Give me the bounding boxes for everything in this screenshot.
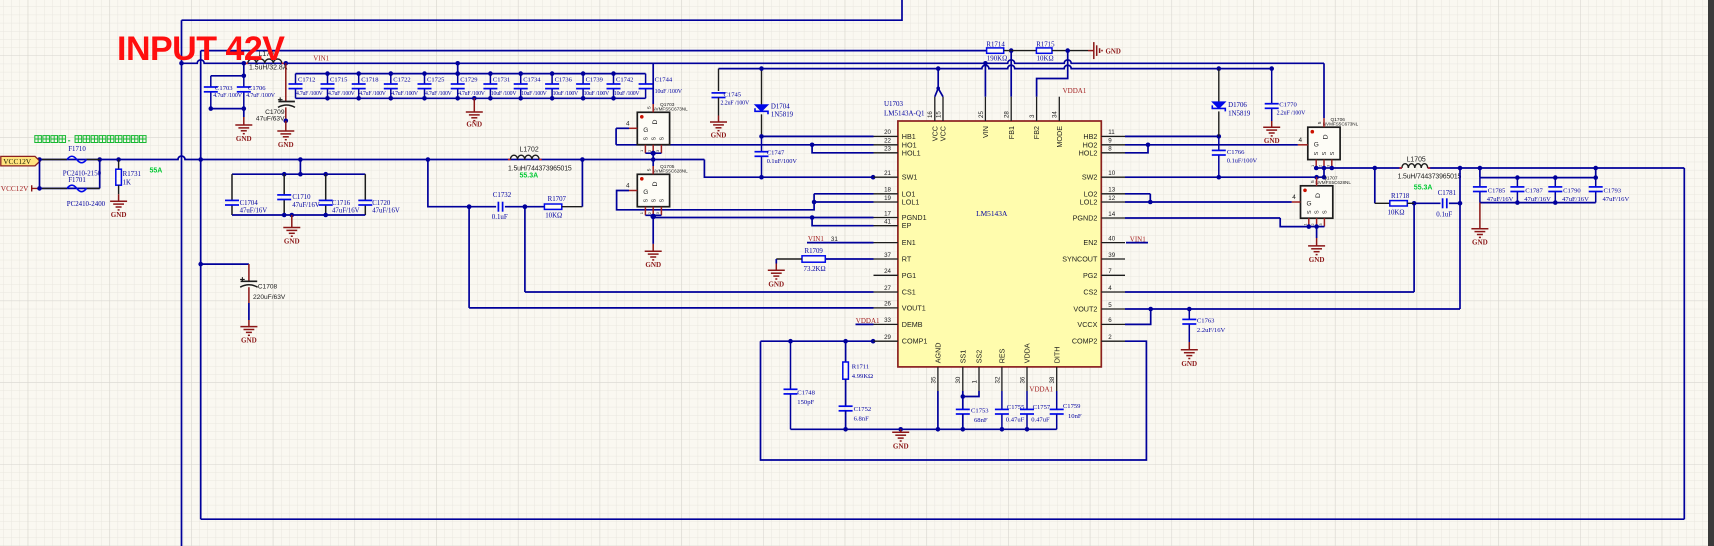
pin SW1 (21) left <box>874 176 898 178</box>
pin VIN (25) top <box>984 97 986 121</box>
svg-text:D: D <box>652 182 659 187</box>
svg-text:38: 38 <box>1049 376 1056 383</box>
svg-text:NVMFS5C673NL: NVMFS5C673NL <box>1323 122 1359 127</box>
svg-text:C1708: C1708 <box>258 284 278 291</box>
svg-text:LOL1: LOL1 <box>902 198 920 207</box>
wire VIN pin to VIN1 rail <box>984 63 986 96</box>
svg-text:VDDA: VDDA <box>1023 343 1032 363</box>
svg-text:L1705: L1705 <box>1407 157 1426 164</box>
wire SW2 <box>1125 176 1324 178</box>
svg-text:18: 18 <box>884 187 891 194</box>
svg-text:C1793: C1793 <box>1604 187 1622 194</box>
svg-text:C1712: C1712 <box>298 77 315 84</box>
svg-text:10uF /100V: 10uF /100V <box>491 91 517 97</box>
svg-text:10KΩ: 10KΩ <box>1388 209 1405 216</box>
wire HO2 <box>1125 144 1298 146</box>
wire Q1706 sources <box>1315 160 1317 168</box>
svg-text:C1736: C1736 <box>555 77 573 84</box>
svg-text:VCC12V: VCC12V <box>1 184 29 193</box>
pin VOUT1 (26) left <box>874 307 898 309</box>
ground GND under input cap bank <box>473 98 475 112</box>
svg-text:1.5uH/744373965015: 1.5uH/744373965015 <box>1398 174 1462 181</box>
svg-text:U1703: U1703 <box>884 100 904 108</box>
svg-text:GND: GND <box>1181 360 1197 368</box>
svg-text:8: 8 <box>1108 146 1112 153</box>
svg-text:G: G <box>1307 200 1312 207</box>
svg-text:GND: GND <box>284 238 300 246</box>
wire HOL2 <box>1125 145 1148 153</box>
svg-text:4.7uF /100V: 4.7uF /100V <box>246 93 276 99</box>
svg-text:190KΩ: 190KΩ <box>987 56 1007 63</box>
pin FB1 (28) top <box>1010 97 1012 121</box>
wire COMP1 <box>761 340 874 342</box>
svg-text:EP: EP <box>902 221 912 230</box>
svg-text:22: 22 <box>884 138 891 145</box>
pin LOL1 (19) left <box>874 201 898 203</box>
svg-text:C1716: C1716 <box>332 200 351 207</box>
svg-text:C1729: C1729 <box>460 77 477 84</box>
pin FB2 (3) top <box>1036 97 1038 121</box>
wire Q1705 source to PGND <box>652 215 654 244</box>
svg-text:GND: GND <box>466 121 482 129</box>
svg-text:55.3A: 55.3A <box>1414 185 1433 192</box>
svg-text:C1731: C1731 <box>493 77 510 84</box>
svg-text:1.5uH/744373965015: 1.5uH/744373965015 <box>508 166 572 173</box>
capacitor C1732 0.1uF <box>498 202 502 212</box>
wire HO1 <box>616 144 873 146</box>
svg-text:SW1: SW1 <box>902 173 918 182</box>
wire CS2 <box>1125 291 1414 293</box>
wire AGND drop <box>937 391 939 429</box>
svg-text:4: 4 <box>1298 137 1302 144</box>
svg-text:11: 11 <box>1108 129 1115 136</box>
wire LO/LOL to Q1705 gate <box>617 191 815 210</box>
wire input cap bank top bus <box>296 73 646 75</box>
svg-text:LM5143A: LM5143A <box>976 209 1008 218</box>
svg-text:S: S <box>1314 151 1320 155</box>
wire C1703/C1706 bottom bus <box>211 108 244 110</box>
wire VCCX tie <box>1125 309 1151 324</box>
svg-text:C1757: C1757 <box>1033 404 1051 411</box>
capacitor C1729 4.7uF/100V <box>457 74 459 84</box>
svg-text:SW2: SW2 <box>1082 173 1098 182</box>
svg-text:5: 5 <box>646 168 652 171</box>
svg-text:HOL1: HOL1 <box>902 148 921 157</box>
capacitor C1739 10uF/100V <box>582 74 584 84</box>
svg-text:VIN: VIN <box>981 126 990 138</box>
wire VOUT2 right vertical <box>1683 168 1685 519</box>
wire Q1703 gate link <box>615 128 617 145</box>
svg-text:C1790: C1790 <box>1563 187 1581 194</box>
svg-text:GND: GND <box>278 141 294 149</box>
capacitor C1785 47uF/16V <box>1479 178 1481 187</box>
svg-text:5: 5 <box>1310 180 1316 183</box>
svg-text:4.7uF /100V: 4.7uF /100V <box>213 93 243 99</box>
net label VIN1 at EN1 <box>807 242 874 244</box>
svg-text:AGND: AGND <box>934 343 943 364</box>
capacitor C1763 2.2uF/16V <box>1188 309 1190 319</box>
resistor R1715 10K <box>1036 48 1052 53</box>
svg-text:55A: 55A <box>150 168 163 175</box>
svg-text:C1748: C1748 <box>797 389 815 396</box>
sheet edge dark strip <box>1708 0 1714 546</box>
capacitor C1745 2.2uF/100V <box>718 69 720 91</box>
ground GND under C1709 <box>285 121 287 131</box>
svg-text:HOL2: HOL2 <box>1079 148 1098 157</box>
svg-text:C1715: C1715 <box>330 77 347 84</box>
wire LOL2 <box>1125 201 1150 203</box>
net label VIN1 at EN2 <box>1126 242 1148 244</box>
wire LO1 <box>814 193 873 195</box>
wire VOUT1 drop <box>468 207 470 308</box>
capacitor C1781 0.1uF <box>1414 202 1440 204</box>
wire SS1/SS2 tie <box>962 391 964 409</box>
inductor L1705 1.5uH/744373965015 <box>1396 171 1463 180</box>
svg-text:4.99KΩ: 4.99KΩ <box>852 373 873 380</box>
svg-text:32: 32 <box>994 376 1001 383</box>
wire CS1 drop <box>524 207 526 292</box>
wire R1707 to SW1 <box>581 160 583 207</box>
wire COMP loop <box>761 341 1147 460</box>
svg-text:C1718: C1718 <box>361 77 378 84</box>
resistor R1718 10K <box>1374 168 1376 203</box>
svg-text:28: 28 <box>1004 111 1011 118</box>
svg-text:VCC12V: VCC12V <box>3 157 32 166</box>
svg-text:C1703: C1703 <box>215 85 233 92</box>
svg-text:16: 16 <box>927 111 934 118</box>
svg-text:SS2: SS2 <box>975 350 984 364</box>
svg-text:PC2410-2400: PC2410-2400 <box>67 201 106 208</box>
svg-text:LM5143A-Q1: LM5143A-Q1 <box>884 109 925 117</box>
capacitor C1710 47uF/16V <box>283 174 285 195</box>
pin VDDA (36) bottom <box>1026 367 1028 391</box>
wire CS filter row <box>428 160 496 207</box>
svg-text:MODE: MODE <box>1055 126 1064 148</box>
wire output bank ch2 top bus <box>1480 177 1596 179</box>
svg-text:GND: GND <box>1472 239 1488 247</box>
ground GND under R1731 <box>118 194 120 201</box>
pin PGND1 (17) left <box>874 217 898 219</box>
wire feedback divider top <box>201 50 987 52</box>
pin PG2 (7) right <box>1101 274 1125 276</box>
port VCC12V <box>1 156 40 166</box>
svg-text:C1722: C1722 <box>393 77 410 84</box>
diode D1706 1N5819 <box>1217 66 1222 71</box>
svg-text:CS2: CS2 <box>1083 288 1097 297</box>
inductor L1702 1.5uH/744373965015 <box>505 162 571 172</box>
pin SS2 (1) bottom <box>978 367 980 391</box>
wire output bank bottom bus <box>232 214 365 216</box>
svg-text:14: 14 <box>1108 211 1115 218</box>
pin VCC (16) top <box>934 97 936 121</box>
ground GND under Q1707 <box>1316 238 1318 246</box>
pin MODE (34) top <box>1058 97 1060 121</box>
fuse F1701 PC2410-2400 <box>42 187 67 189</box>
wire input cap bank bottom bus <box>296 97 646 99</box>
capacitor C1720 47uF/16V <box>364 174 366 200</box>
svg-text:GND: GND <box>893 442 909 450</box>
svg-text:VDDA1: VDDA1 <box>1063 87 1087 95</box>
wire bootstrap rail (HB) <box>719 65 1272 69</box>
svg-text:C1781: C1781 <box>1438 190 1457 197</box>
pin HO1 (22) left <box>874 144 898 146</box>
transistor Q1707 NVMFS5C628NL <box>1301 186 1333 218</box>
svg-text:2: 2 <box>1108 334 1112 341</box>
svg-text:C1766: C1766 <box>1227 149 1245 156</box>
pin AGND (35) bottom <box>937 367 939 391</box>
svg-text:D1706: D1706 <box>1228 102 1247 109</box>
svg-text:0.47uF: 0.47uF <box>1031 416 1050 423</box>
capacitor C1742 10uF/100V <box>613 74 615 84</box>
pin HOL1 (23) left <box>874 152 898 154</box>
svg-text:1: 1 <box>971 380 978 384</box>
svg-text:D1704: D1704 <box>771 103 790 110</box>
pin DEMB (33) left <box>874 323 898 325</box>
svg-text:DITH: DITH <box>1052 347 1061 364</box>
svg-text:SYNCOUT: SYNCOUT <box>1062 255 1098 264</box>
svg-text:S: S <box>1315 210 1321 214</box>
ground GND under Q1705 <box>652 244 654 251</box>
svg-text:PG2: PG2 <box>1083 271 1097 280</box>
svg-text:0.1uF/100V: 0.1uF/100V <box>767 158 798 165</box>
ground GND comp network <box>900 429 902 432</box>
svg-text:6.8nF: 6.8nF <box>854 415 870 422</box>
svg-text:C1752: C1752 <box>854 406 872 413</box>
capacitor C1793 47uF/16V <box>1595 178 1597 187</box>
svg-text:C1763: C1763 <box>1197 318 1215 325</box>
svg-text:13: 13 <box>1108 187 1115 194</box>
wire VOUT bottom return <box>201 518 1685 520</box>
capacitor C1706 4.7uF/100V <box>243 76 245 87</box>
svg-text:GND: GND <box>645 261 661 269</box>
pin DITH (38) bottom <box>1056 367 1058 391</box>
svg-text:4.7uF /100V: 4.7uF /100V <box>425 91 453 97</box>
capacitor C1709 47uF/63V polarized <box>285 63 287 101</box>
wire VIN1 horizontal bus <box>182 60 1325 64</box>
pin RT (37) left <box>874 258 898 260</box>
wire C1703/C1706 top bus <box>243 63 245 76</box>
svg-text:4: 4 <box>1292 194 1296 201</box>
wire Q1707 drain <box>1314 175 1319 180</box>
svg-text:CS1: CS1 <box>902 288 916 297</box>
wire Q1706 drain <box>1323 118 1325 127</box>
ground GND under C1706 <box>243 109 245 117</box>
svg-text:NVMFS5C673NL: NVMFS5C673NL <box>652 107 688 112</box>
svg-text:R1718: R1718 <box>1391 193 1410 200</box>
svg-text:73.2KΩ: 73.2KΩ <box>804 266 826 273</box>
svg-text:150pF: 150pF <box>797 399 814 406</box>
svg-text:SS1: SS1 <box>958 350 967 364</box>
svg-text:VOUT1: VOUT1 <box>902 303 926 312</box>
capacitor C1715 4.7uF/100V <box>327 74 329 84</box>
node VOUT1 tap <box>523 204 528 209</box>
svg-text:C1732: C1732 <box>493 192 512 199</box>
node HB1 junction <box>759 134 764 139</box>
pin EN2 (40) right <box>1101 242 1125 244</box>
svg-text:20: 20 <box>884 129 891 136</box>
svg-text:4.7uF /100V: 4.7uF /100V <box>391 91 419 97</box>
svg-text:D: D <box>1315 193 1322 198</box>
capacitor C1708 220uF/63V polarized <box>201 263 249 265</box>
svg-text:COMP1: COMP1 <box>902 337 928 346</box>
fuse F1710 PC2410-2150 <box>42 159 67 161</box>
svg-text:RES: RES <box>998 348 1007 363</box>
svg-text:C1720: C1720 <box>372 200 391 207</box>
svg-text:10uF /100V: 10uF /100V <box>655 89 683 95</box>
ground GND under C1708 <box>248 320 250 327</box>
wire LOL1 <box>814 201 873 203</box>
wire output bank ch2 bottom bus <box>1480 202 1596 204</box>
svg-text:C1759: C1759 <box>1063 403 1081 410</box>
pin EN1 (31) left <box>874 242 898 244</box>
svg-text:1N5819: 1N5819 <box>771 112 794 119</box>
svg-text:NVMFS5C628NL: NVMFS5C628NL <box>652 169 688 174</box>
pin VOUT2 (5) right <box>1101 308 1125 310</box>
pin HO2 (9) right <box>1101 144 1125 146</box>
svg-text:15: 15 <box>935 111 942 118</box>
capacitor C1722 4.7uF/100V <box>390 74 392 84</box>
ground GND (right-pointing) at divider <box>1088 50 1094 52</box>
svg-text:0.1uF: 0.1uF <box>1436 212 1452 219</box>
wire output bank top bus <box>232 173 365 175</box>
wire Q1703 drain <box>652 63 654 104</box>
wire LO/LOL to Q1707 gate <box>1149 194 1151 202</box>
wire divider middle <box>1004 50 1037 52</box>
svg-text:31: 31 <box>831 236 838 243</box>
transistor Q1703 NVMFS5C673NL <box>637 112 669 144</box>
svg-text:27: 27 <box>884 285 891 292</box>
capacitor C1716 47uF/16V <box>325 174 327 200</box>
svg-text:39: 39 <box>1108 252 1115 259</box>
svg-text:47uF/16V: 47uF/16V <box>292 202 320 209</box>
svg-text:1K: 1K <box>123 179 131 186</box>
svg-text:VDDA1: VDDA1 <box>1029 385 1053 393</box>
wire SW1 to pin <box>704 160 873 178</box>
pin LO1 (18) left <box>874 193 898 195</box>
svg-text:VCCX: VCCX <box>1077 320 1097 329</box>
wire VIN1 drop to Q1706 drain <box>1323 63 1325 118</box>
svg-text:C1739: C1739 <box>586 77 603 84</box>
svg-text:PG1: PG1 <box>902 271 916 280</box>
wire EP <box>812 218 873 226</box>
wire VIN1 top feed <box>182 0 903 20</box>
ground GND under C1770 <box>1263 127 1280 136</box>
svg-text:EN2: EN2 <box>1083 238 1097 247</box>
pin HB2 (11) right <box>1101 135 1125 137</box>
pin COMP1 (29) left <box>874 340 898 342</box>
wire PGND2 <box>1125 217 1280 219</box>
svg-text:COMP2: COMP2 <box>1072 337 1098 346</box>
wire Q1707 source to GND <box>1316 227 1318 238</box>
ground GND under output bank ch2 <box>1479 203 1481 229</box>
svg-text:5: 5 <box>1317 121 1323 124</box>
svg-text:68nF: 68nF <box>974 417 988 424</box>
svg-text:LOL2: LOL2 <box>1080 198 1098 207</box>
svg-text:L1702: L1702 <box>520 146 539 153</box>
svg-text:GND: GND <box>236 135 252 143</box>
wire output bank ch2 feeds <box>1479 168 1481 178</box>
capacitor C1748 150pF <box>790 341 792 389</box>
svg-text:EN1: EN1 <box>902 238 916 247</box>
pin LO2 (13) right <box>1101 193 1125 195</box>
svg-text:10uF /100V: 10uF /100V <box>614 91 640 97</box>
svg-text:17: 17 <box>884 210 891 217</box>
svg-text:36: 36 <box>1019 376 1026 383</box>
capacitor C1703 4.7uF/100V <box>210 76 212 87</box>
capacitor C1790 47uF/16V <box>1554 178 1556 187</box>
wire bank tap from VIN1 <box>457 63 459 73</box>
svg-text:10KΩ: 10KΩ <box>545 212 562 219</box>
wire FB2 link <box>1037 51 1068 97</box>
svg-text:41: 41 <box>884 219 891 226</box>
node FB1 divider junction <box>1009 48 1014 53</box>
svg-text:2.2uF/16V: 2.2uF/16V <box>1197 327 1226 334</box>
capacitor C1725 4.7uF/100V <box>424 74 426 84</box>
transistor Q1706 NVMFS5C673NL <box>1308 127 1340 159</box>
svg-text:10KΩ: 10KΩ <box>1037 56 1054 63</box>
svg-text:VOUT2: VOUT2 <box>1073 305 1097 314</box>
wire compensation bottom bus <box>791 428 1057 430</box>
svg-text:37: 37 <box>884 252 891 259</box>
svg-text:PGND2: PGND2 <box>1073 214 1098 223</box>
svg-text:33: 33 <box>884 317 891 324</box>
annotation chinese note <box>35 136 146 143</box>
svg-text:S: S <box>1330 151 1336 155</box>
svg-text:5: 5 <box>646 106 652 109</box>
svg-text:GND: GND <box>111 211 127 219</box>
svg-text:GND: GND <box>1309 256 1325 264</box>
svg-text:29: 29 <box>884 334 891 341</box>
capacitor C1736 10uF/100V <box>551 74 553 84</box>
svg-text:47uF/16V: 47uF/16V <box>372 208 400 215</box>
pin SW2 (10) right <box>1101 176 1125 178</box>
capacitor C1744 10uF/100V <box>645 74 647 84</box>
transistor Q1705 NVMFS5C628NL <box>637 174 669 206</box>
capacitor C1766 0.1uF/100V <box>1218 136 1220 150</box>
pin VCCX (6) right <box>1101 323 1125 325</box>
svg-text:1N5819: 1N5819 <box>1228 111 1251 118</box>
svg-text:C1787: C1787 <box>1525 187 1543 194</box>
wire CS1 <box>525 291 874 293</box>
svg-text:6: 6 <box>1108 317 1112 324</box>
svg-text:F1701: F1701 <box>68 177 86 184</box>
capacitor C1734 10uF/100V <box>520 74 522 84</box>
svg-text:DEMB: DEMB <box>902 320 923 329</box>
node VIN1 junction at rail <box>179 61 184 66</box>
capacitor C1770 2.2uF/100V <box>1269 66 1274 71</box>
wire Q1706 gate <box>1298 144 1308 146</box>
net label VDDA1 at DEMB <box>856 323 874 325</box>
svg-text:4.7uF /100V: 4.7uF /100V <box>328 91 356 97</box>
wire VIN1 vertical rail <box>181 20 183 546</box>
svg-text:55.3A: 55.3A <box>520 173 539 180</box>
wire Q1706 source to SW2 <box>1323 168 1325 177</box>
resistor R1709 73.2K at RT <box>825 258 873 260</box>
op-amp U1703 LM5143A-Q1 body <box>898 121 1101 367</box>
svg-text:RT: RT <box>902 255 912 264</box>
wire HB2 <box>1125 135 1219 137</box>
capacitor C1757 0.47uF <box>1026 391 1028 409</box>
capacitor C1704 47uF/16V <box>231 174 233 200</box>
svg-text:GND: GND <box>1106 48 1121 55</box>
capacitor C1712 4.7uF/100V <box>295 74 297 84</box>
pin CS1 (27) left <box>874 291 898 293</box>
svg-text:F1710: F1710 <box>68 146 86 153</box>
svg-text:G: G <box>643 127 648 134</box>
svg-text:5: 5 <box>1108 302 1112 309</box>
svg-text:25: 25 <box>978 111 985 118</box>
svg-text:FB2: FB2 <box>1032 126 1041 139</box>
